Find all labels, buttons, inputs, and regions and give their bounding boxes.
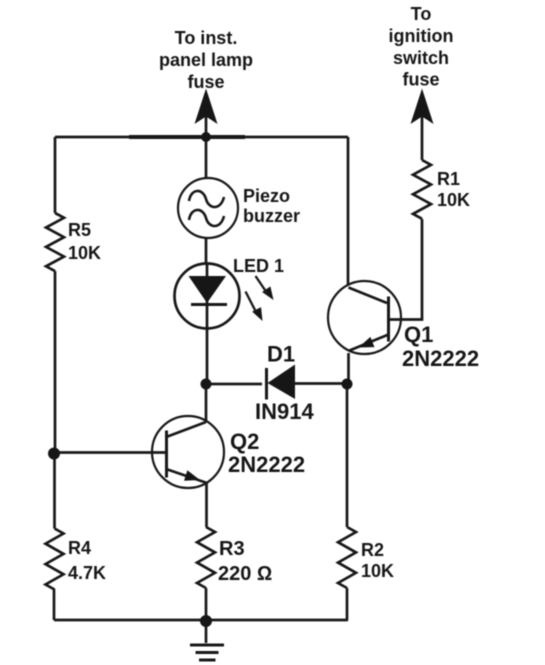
svg-text:D1: D1 bbox=[267, 342, 295, 367]
svg-text:Q2: Q2 bbox=[230, 429, 259, 454]
svg-text:R3: R3 bbox=[219, 538, 245, 560]
svg-text:LED 1: LED 1 bbox=[233, 256, 284, 276]
svg-text:R2: R2 bbox=[361, 540, 384, 560]
svg-text:2N2222: 2N2222 bbox=[228, 452, 305, 477]
svg-text:R4: R4 bbox=[68, 538, 91, 558]
svg-text:4.7K: 4.7K bbox=[68, 563, 106, 583]
svg-text:2N2222: 2N2222 bbox=[402, 346, 479, 371]
svg-text:ignition: ignition bbox=[389, 26, 454, 46]
svg-text:IN914: IN914 bbox=[255, 399, 314, 424]
svg-text:Q1: Q1 bbox=[404, 322, 433, 347]
svg-text:fuse: fuse bbox=[187, 72, 224, 92]
svg-text:switch: switch bbox=[393, 48, 449, 68]
svg-text:10K: 10K bbox=[361, 561, 394, 581]
svg-text:10K: 10K bbox=[437, 190, 470, 210]
svg-text:buzzer: buzzer bbox=[243, 206, 300, 226]
svg-text:R5: R5 bbox=[68, 220, 91, 240]
svg-text:To inst.: To inst. bbox=[175, 28, 238, 48]
svg-text:R1: R1 bbox=[437, 169, 460, 189]
svg-text:panel lamp: panel lamp bbox=[159, 50, 253, 70]
svg-text:Piezo: Piezo bbox=[243, 186, 290, 206]
svg-text:10K: 10K bbox=[68, 243, 101, 263]
svg-text:220 Ω: 220 Ω bbox=[218, 563, 272, 585]
svg-text:To: To bbox=[411, 4, 432, 24]
svg-text:fuse: fuse bbox=[402, 70, 439, 90]
